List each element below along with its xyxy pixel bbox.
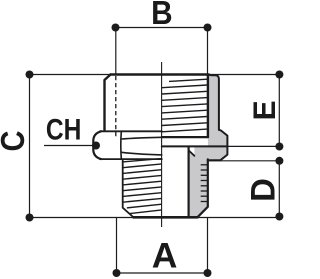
svg-text:B: B bbox=[151, 0, 172, 32]
svg-text:CH: CH bbox=[46, 112, 82, 146]
svg-text:C: C bbox=[0, 131, 31, 152]
svg-text:E: E bbox=[246, 100, 282, 120]
svg-text:D: D bbox=[245, 178, 283, 202]
svg-text:A: A bbox=[152, 235, 178, 275]
